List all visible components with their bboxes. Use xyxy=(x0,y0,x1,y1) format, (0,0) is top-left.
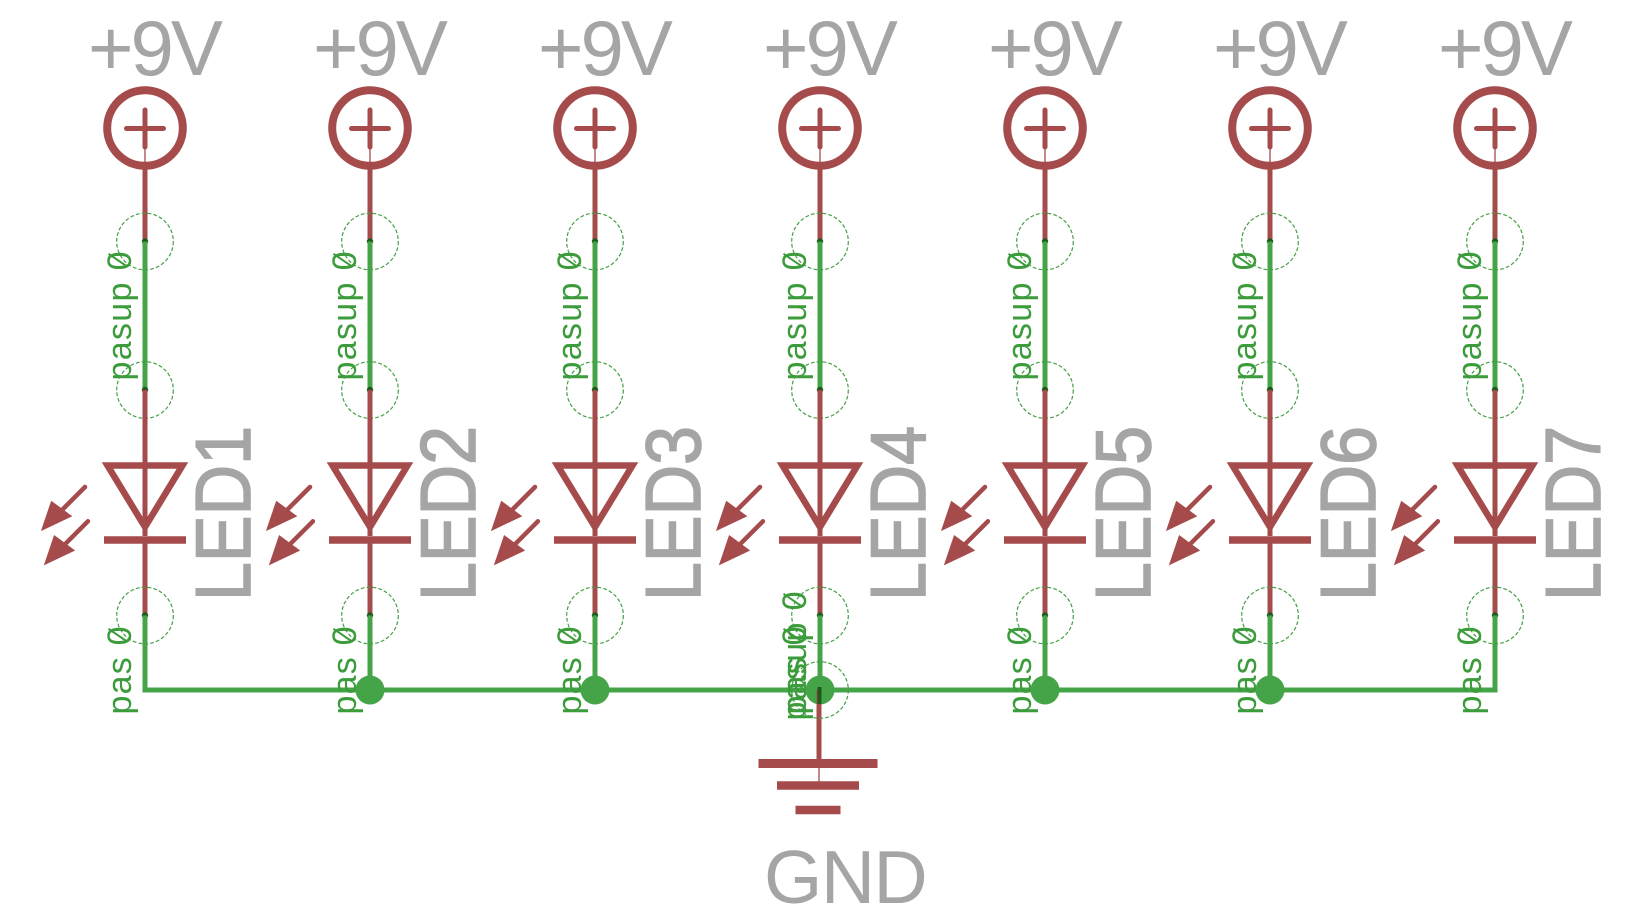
svg-text:GND: GND xyxy=(764,835,926,918)
svg-text:pasup 0: pasup 0 xyxy=(776,592,814,721)
svg-text:LED4: LED4 xyxy=(854,426,942,601)
svg-text:LED6: LED6 xyxy=(1304,426,1392,601)
svg-text:LED1: LED1 xyxy=(179,426,267,601)
svg-text:LED3: LED3 xyxy=(629,426,717,601)
svg-text:LED2: LED2 xyxy=(404,426,492,601)
svg-text:LED7: LED7 xyxy=(1529,426,1617,601)
svg-text:LED5: LED5 xyxy=(1079,426,1167,601)
